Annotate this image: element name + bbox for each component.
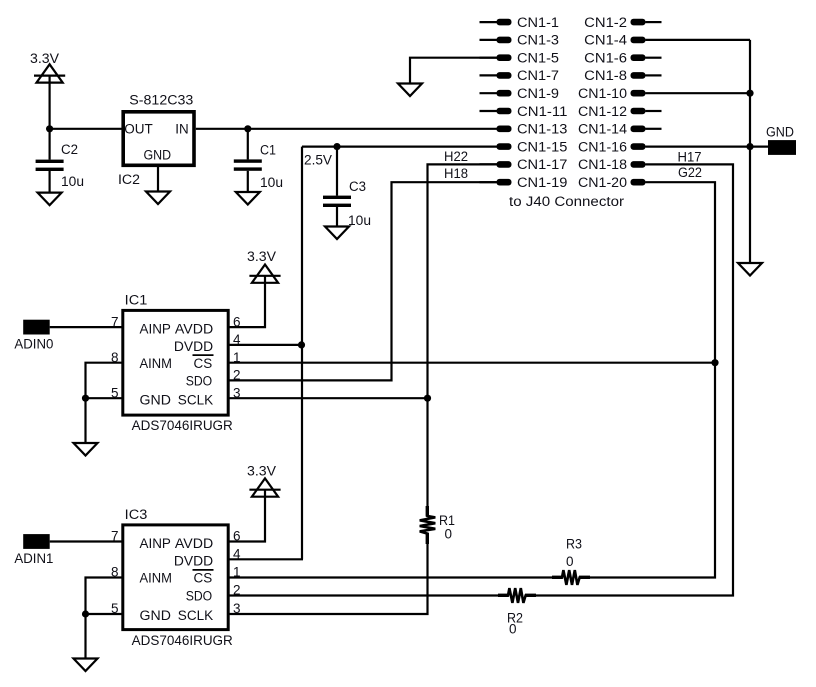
port GND bbox=[766, 125, 796, 155]
junction node C (C3 tap) bbox=[333, 143, 340, 150]
connector pin CN1-17 bbox=[480, 157, 568, 172]
wire CN1-20 to R3 / CS rail bbox=[590, 182, 715, 577]
wire IC1 CS pin 1 bbox=[230, 362, 716, 364]
power symbol 3.3V (top left) bbox=[30, 51, 65, 83]
svg-text:DVDD: DVDD bbox=[174, 339, 214, 354]
connector pin CN1-20 bbox=[578, 175, 646, 190]
power symbol 3.3V (IC1) bbox=[247, 249, 281, 283]
svg-text:10u: 10u bbox=[260, 175, 283, 190]
connector pin CN1-11 bbox=[480, 104, 568, 119]
svg-text:3: 3 bbox=[233, 601, 241, 616]
svg-text:IC1: IC1 bbox=[125, 292, 148, 307]
svg-text:2: 2 bbox=[233, 583, 241, 598]
ground (CN1-5) bbox=[398, 84, 422, 97]
svg-text:GND: GND bbox=[140, 608, 172, 623]
svg-text:CN1-10: CN1-10 bbox=[578, 86, 627, 101]
svg-text:ADS7046IRUGR: ADS7046IRUGR bbox=[132, 633, 233, 648]
ground (IC1) bbox=[74, 443, 98, 456]
svg-text:CN1-12: CN1-12 bbox=[578, 104, 627, 119]
connector pin CN1-7 bbox=[480, 68, 560, 83]
wire CN1-4 to GND rail bbox=[646, 39, 751, 41]
svg-text:SDO: SDO bbox=[186, 589, 213, 604]
wire CN1-18 to R2 bbox=[536, 164, 733, 595]
svg-text:SCLK: SCLK bbox=[178, 392, 213, 407]
svg-text:1: 1 bbox=[233, 350, 241, 365]
svg-text:CN1-6: CN1-6 bbox=[584, 51, 627, 66]
svg-text:GND: GND bbox=[144, 147, 172, 162]
svg-text:S-812C33: S-812C33 bbox=[129, 92, 193, 107]
wire IC1 GND pin 5 bbox=[86, 397, 122, 399]
wire SCLK rail to R1 bbox=[426, 398, 428, 506]
svg-text:SCLK: SCLK bbox=[178, 608, 213, 623]
svg-text:CN1-17: CN1-17 bbox=[517, 157, 567, 172]
junction CS rail / IC1 CS bbox=[711, 359, 718, 366]
svg-text:CN1-7: CN1-7 bbox=[517, 68, 559, 83]
connector pin CN1-4 bbox=[584, 33, 645, 48]
svg-text:H18: H18 bbox=[444, 166, 468, 181]
wire CN1-10 to GND rail bbox=[646, 92, 751, 94]
svg-text:IC3: IC3 bbox=[125, 507, 148, 522]
op-amp/ADC IC3 ADS7046IRUGR bbox=[111, 507, 241, 648]
svg-text:CN1-14: CN1-14 bbox=[578, 122, 628, 137]
connector pin CN1-1 bbox=[480, 15, 560, 30]
svg-text:CN1-13: CN1-13 bbox=[517, 122, 567, 137]
svg-text:AINP: AINP bbox=[140, 321, 171, 336]
label to J40 Connector bbox=[509, 194, 625, 209]
svg-text:AINP: AINP bbox=[140, 536, 171, 551]
svg-text:GND: GND bbox=[766, 125, 794, 140]
wire GND rail vertical bbox=[749, 40, 751, 263]
junction node B (C1 tap) bbox=[244, 125, 251, 132]
label H18 bbox=[444, 166, 468, 181]
svg-text:IC2: IC2 bbox=[118, 172, 140, 187]
wire node A to IC2 OUT pin bbox=[50, 128, 122, 130]
svg-text:3.3V: 3.3V bbox=[247, 464, 276, 479]
connector pin CN1-14 bbox=[578, 122, 662, 137]
label H22 bbox=[444, 149, 468, 164]
junction 2.5V rail / IC1 DVDD bbox=[298, 341, 305, 348]
regulator IC2 S-812C33 box bbox=[118, 92, 194, 187]
svg-text:G22: G22 bbox=[678, 165, 702, 180]
capacitor C2 bbox=[36, 129, 84, 193]
svg-text:CS: CS bbox=[194, 571, 213, 586]
ground (under C2) bbox=[38, 193, 62, 206]
connector pin CN1-16 bbox=[578, 139, 646, 154]
capacitor C3 bbox=[323, 147, 371, 228]
svg-text:CN1-9: CN1-9 bbox=[517, 86, 559, 101]
label G22 bbox=[678, 165, 702, 180]
svg-text:1: 1 bbox=[233, 565, 241, 580]
wire IC1 SCLK pin 3 bbox=[230, 397, 428, 399]
svg-text:AVDD: AVDD bbox=[175, 321, 214, 336]
svg-text:OUT: OUT bbox=[124, 122, 153, 137]
junction GND rail / CN1-10 bbox=[746, 90, 753, 97]
svg-text:0: 0 bbox=[445, 527, 453, 542]
svg-text:H22: H22 bbox=[444, 149, 468, 164]
wire IC3 GND node down bbox=[84, 614, 86, 659]
svg-text:to J40 Connector: to J40 Connector bbox=[509, 194, 625, 209]
svg-text:CN1-16: CN1-16 bbox=[578, 139, 627, 154]
wire R3 to IC3 CS pin 1 bbox=[230, 576, 553, 578]
svg-text:3: 3 bbox=[233, 385, 241, 400]
wire ADIN0 to IC1 AINP pin 7 bbox=[50, 326, 122, 328]
svg-text:H17: H17 bbox=[678, 150, 702, 165]
svg-text:CN1-4: CN1-4 bbox=[584, 33, 627, 48]
svg-text:0: 0 bbox=[509, 622, 517, 637]
junction SCLK rail / IC1 SCLK bbox=[424, 395, 431, 402]
wire IC3 AINM pin 8 to GND bbox=[86, 578, 122, 615]
wire CN1-16 to port GND bbox=[646, 146, 769, 148]
label H17 bbox=[678, 150, 702, 165]
port ADIN1 bbox=[14, 534, 53, 566]
svg-text:AINM: AINM bbox=[140, 356, 172, 371]
resistor R1 bbox=[420, 506, 455, 544]
wire CN1-19 to IC1 SDO pin 2 bbox=[230, 182, 498, 380]
wire IC1 GND node down bbox=[84, 398, 86, 443]
svg-text:CN1-8: CN1-8 bbox=[584, 68, 627, 83]
svg-text:DVDD: DVDD bbox=[174, 554, 214, 569]
connector pin CN1-19 bbox=[480, 175, 568, 190]
junction IC3 GND node bbox=[82, 610, 89, 617]
connector pin CN1-13 bbox=[497, 122, 568, 137]
wire R2 to IC3 SDO pin 2 bbox=[230, 594, 499, 596]
svg-text:CN1-11: CN1-11 bbox=[517, 104, 567, 119]
port ADIN0 bbox=[14, 320, 53, 352]
op-amp/ADC IC1 ADS7046IRUGR bbox=[111, 292, 241, 433]
connector pin CN1-6 bbox=[584, 51, 661, 66]
svg-text:ADS7046IRUGR: ADS7046IRUGR bbox=[132, 418, 233, 433]
wire IC3 DVDD pin 4 to 2.5V rail bbox=[230, 558, 304, 560]
connector pin CN1-2 bbox=[584, 15, 661, 30]
svg-text:AINM: AINM bbox=[140, 571, 172, 586]
junction IC1 GND node bbox=[82, 395, 89, 402]
svg-text:10u: 10u bbox=[348, 213, 371, 228]
svg-text:CN1-18: CN1-18 bbox=[578, 157, 627, 172]
connector pin CN1-5 bbox=[480, 51, 560, 66]
wire 3.3V symbol down to node A bbox=[48, 76, 50, 129]
connector pin CN1-18 bbox=[578, 157, 646, 172]
connector pin CN1-3 bbox=[480, 33, 560, 48]
svg-text:R3: R3 bbox=[566, 537, 582, 552]
wire IC2 IN to CN1-13 (3.3V net) bbox=[196, 128, 498, 130]
svg-text:2: 2 bbox=[233, 368, 241, 383]
capacitor C1 bbox=[234, 129, 283, 192]
connector pin CN1-10 bbox=[578, 86, 646, 101]
ground (under IC2) bbox=[146, 192, 170, 205]
svg-text:10u: 10u bbox=[61, 174, 84, 189]
connector pin CN1-12 bbox=[578, 104, 662, 119]
svg-text:ADIN0: ADIN0 bbox=[14, 337, 53, 352]
svg-text:CN1-15: CN1-15 bbox=[517, 139, 567, 154]
svg-text:CN1-20: CN1-20 bbox=[578, 175, 627, 190]
svg-text:C1: C1 bbox=[260, 143, 276, 158]
ground (under C1) bbox=[236, 192, 260, 205]
wire 2.5V vertical rail bbox=[301, 147, 303, 560]
ground (under C3) bbox=[325, 227, 349, 240]
connector pin CN1-15 bbox=[497, 139, 568, 154]
svg-text:CN1-1: CN1-1 bbox=[517, 15, 559, 30]
connector pin CN1-8 bbox=[584, 68, 661, 83]
label 2.5V bbox=[304, 153, 332, 168]
wire IC1 DVDD pin 4 to 2.5V rail bbox=[230, 344, 303, 346]
svg-text:CN1-3: CN1-3 bbox=[517, 33, 559, 48]
connector pin CN1-9 bbox=[480, 86, 560, 101]
svg-text:SDO: SDO bbox=[186, 374, 213, 389]
svg-text:AVDD: AVDD bbox=[175, 536, 214, 551]
wire IC2 GND pin bbox=[157, 166, 159, 192]
resistor R2 bbox=[498, 588, 536, 636]
svg-text:CS: CS bbox=[194, 356, 213, 371]
wire 2.5V to CN1-15 bbox=[302, 146, 498, 148]
svg-text:3.3V: 3.3V bbox=[30, 51, 59, 66]
svg-text:C2: C2 bbox=[61, 142, 78, 157]
resistor R3 bbox=[552, 537, 590, 585]
svg-text:IN: IN bbox=[175, 122, 188, 137]
wire CN1-17 to SCLK rail bbox=[428, 164, 498, 398]
wire IC1 AINM pin 8 to GND bbox=[86, 363, 122, 399]
svg-text:0: 0 bbox=[566, 554, 574, 569]
power symbol 3.3V (IC3) bbox=[247, 464, 281, 497]
ground (GND rail) bbox=[738, 263, 762, 276]
wire CN1-5 to ground bbox=[410, 58, 498, 84]
wire IC3 GND pin 5 bbox=[86, 613, 122, 615]
svg-text:ADIN1: ADIN1 bbox=[14, 551, 53, 566]
ground (IC3) bbox=[74, 659, 98, 672]
svg-text:CN1-19: CN1-19 bbox=[517, 175, 567, 190]
wire 3.3V to IC1 AVDD pin 6 bbox=[230, 276, 266, 327]
wire ADIN1 to IC3 AINP pin 7 bbox=[50, 540, 122, 542]
wire 3.3V to IC3 AVDD pin 6 bbox=[230, 490, 266, 542]
svg-text:3.3V: 3.3V bbox=[247, 249, 276, 264]
wire R1 to IC3 SCLK pin 3 bbox=[230, 544, 428, 614]
svg-text:GND: GND bbox=[140, 392, 172, 407]
svg-text:CN1-5: CN1-5 bbox=[517, 51, 559, 66]
svg-text:CN1-2: CN1-2 bbox=[584, 15, 627, 30]
junction GND rail / CN1-16 bbox=[746, 143, 753, 150]
svg-text:2.5V: 2.5V bbox=[304, 153, 332, 168]
svg-text:C3: C3 bbox=[349, 179, 366, 194]
junction node A (3.3V/C2/OUT) bbox=[46, 125, 53, 132]
